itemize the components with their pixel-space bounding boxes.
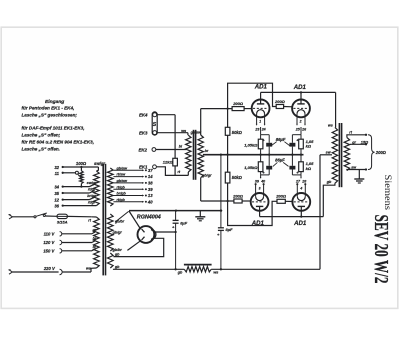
svg-text:220 V: 220 V xyxy=(43,266,56,271)
svg-text:gb: gb xyxy=(114,253,120,257)
svg-text:200Ω: 200Ω xyxy=(375,150,387,155)
svg-text:br: br xyxy=(205,149,209,153)
svg-text:32: 32 xyxy=(54,165,59,170)
svg-text:RGN4004: RGN4004 xyxy=(137,214,161,220)
svg-text:rt/sw: rt/sw xyxy=(117,173,127,177)
svg-text:14: 14 xyxy=(148,174,153,179)
svg-text:für RE 604 u.2 REN 904 EK1-EK3: für RE 604 u.2 REN 904 EK1-EK3, xyxy=(22,140,95,145)
svg-text:ws: ws xyxy=(213,271,218,275)
svg-text:Lasche „S“ geschlossen;: Lasche „S“ geschlossen; xyxy=(22,113,78,118)
svg-text:AD1: AD1 xyxy=(293,220,307,227)
svg-text:3: 3 xyxy=(259,186,261,190)
svg-text:EK1: EK1 xyxy=(139,165,148,170)
svg-text:8µF: 8µF xyxy=(226,227,234,232)
svg-text:sw/gr: sw/gr xyxy=(87,181,97,185)
svg-text:200Ω: 200Ω xyxy=(275,193,287,198)
svg-text:gb/gr: gb/gr xyxy=(112,231,123,235)
svg-text:ws: ws xyxy=(181,129,186,133)
svg-text:sw: sw xyxy=(351,165,356,169)
svg-text:br/gb: br/gb xyxy=(117,192,127,196)
svg-text:86µF: 86µF xyxy=(275,157,285,162)
svg-text:gr: gr xyxy=(92,228,97,232)
svg-text:200Ω: 200Ω xyxy=(274,99,286,104)
svg-text:37: 37 xyxy=(148,168,153,173)
svg-text:200Ω: 200Ω xyxy=(232,193,244,198)
svg-text:SEV 20 W/2: SEV 20 W/2 xyxy=(370,215,392,284)
svg-text:13: 13 xyxy=(148,193,153,198)
svg-text:rt/gr: rt/gr xyxy=(88,188,96,192)
svg-text:EK2: EK2 xyxy=(138,147,147,152)
svg-text:3/15A: 3/15A xyxy=(57,219,68,224)
svg-text:gb: gb xyxy=(114,265,120,269)
svg-text:200Ω: 200Ω xyxy=(232,101,244,106)
svg-text:für Pentoden EK1 - EK4,: für Pentoden EK1 - EK4, xyxy=(22,106,75,111)
svg-text:11: 11 xyxy=(55,171,60,176)
svg-text:EK4: EK4 xyxy=(139,113,148,118)
svg-text:AD1: AD1 xyxy=(293,84,307,91)
svg-text:50kΩ: 50kΩ xyxy=(232,175,243,180)
svg-text:gr: gr xyxy=(351,140,356,144)
svg-text:2: 2 xyxy=(299,119,302,123)
svg-text:rt/gb: rt/gb xyxy=(117,198,126,202)
svg-text:kΩ: kΩ xyxy=(306,144,312,149)
svg-text:1,05kΩ: 1,05kΩ xyxy=(244,142,258,147)
svg-text:40: 40 xyxy=(147,199,153,204)
svg-text:br/gr: br/gr xyxy=(87,194,96,198)
svg-text:39: 39 xyxy=(148,187,153,192)
svg-text:86µF: 86µF xyxy=(276,137,286,142)
svg-text:Lasche „S“ offen.: Lasche „S“ offen. xyxy=(22,147,60,152)
svg-text:gb/br: gb/br xyxy=(112,248,123,252)
svg-text:AD1: AD1 xyxy=(254,84,268,91)
svg-text:36: 36 xyxy=(54,204,59,209)
svg-text:1: 1 xyxy=(259,119,261,123)
svg-text:100Ω: 100Ω xyxy=(76,161,87,166)
svg-text:34: 34 xyxy=(54,185,59,190)
svg-text:8µF: 8µF xyxy=(180,221,188,226)
svg-text:Siemens: Siemens xyxy=(383,175,393,211)
svg-text:ws: ws xyxy=(86,267,91,271)
svg-text:rt/gb: rt/gb xyxy=(117,185,126,189)
svg-text:sw/gr: sw/gr xyxy=(94,161,105,166)
svg-text:23: 23 xyxy=(254,128,259,132)
svg-text:40: 40 xyxy=(260,180,265,184)
svg-text:4: 4 xyxy=(299,186,302,190)
svg-text:39: 39 xyxy=(255,180,259,184)
svg-text:50kΩ: 50kΩ xyxy=(232,130,243,135)
svg-text:gb/sw: gb/sw xyxy=(116,166,129,170)
svg-text:Eingang: Eingang xyxy=(45,99,64,105)
svg-text:gb/sw: gb/sw xyxy=(190,131,203,135)
svg-text:120 V: 120 V xyxy=(43,240,55,245)
svg-text:15Ω: 15Ω xyxy=(361,139,368,144)
svg-text:br: br xyxy=(93,237,97,241)
svg-text:kΩ: kΩ xyxy=(306,166,312,171)
svg-text:12kΩ: 12kΩ xyxy=(163,160,174,165)
svg-text:gb/gr: gb/gr xyxy=(201,173,212,177)
svg-text:1,05kΩ: 1,05kΩ xyxy=(244,165,258,170)
svg-text:Lasche „S“ offen;: Lasche „S“ offen; xyxy=(22,132,61,137)
svg-text:150 V: 150 V xyxy=(43,248,55,253)
svg-text:gb/br: gb/br xyxy=(114,220,125,224)
svg-text:28: 28 xyxy=(301,180,306,184)
svg-text:35: 35 xyxy=(54,191,59,196)
svg-text:110 V: 110 V xyxy=(44,231,56,236)
svg-text:rt/gr: rt/gr xyxy=(88,200,96,204)
svg-text:38: 38 xyxy=(148,181,153,186)
svg-text:ws: ws xyxy=(328,124,333,128)
svg-text:S: S xyxy=(153,122,157,128)
svg-text:12: 12 xyxy=(54,198,59,203)
svg-text:gb: gb xyxy=(177,271,183,275)
svg-text:für DAF-Empf 1011 EK1-EK3,: für DAF-Empf 1011 EK1-EK3, xyxy=(22,126,85,131)
svg-text:gb/sw: gb/sw xyxy=(116,179,129,183)
svg-text:EK3: EK3 xyxy=(139,131,148,136)
svg-text:gb: gb xyxy=(326,180,332,184)
svg-text:24: 24 xyxy=(261,128,266,132)
